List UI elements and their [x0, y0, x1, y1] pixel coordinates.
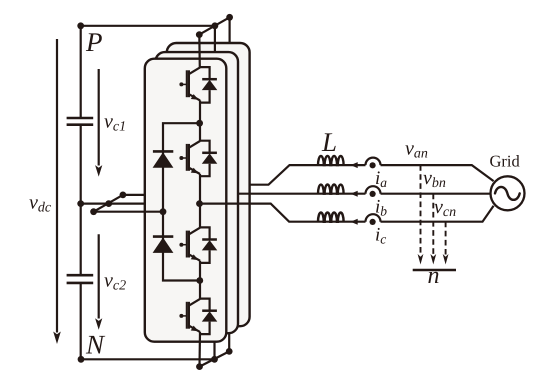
- wire: DC rail middle segment (C1 to C2): [80, 125, 82, 276]
- node: neutral jog c: [120, 192, 127, 199]
- wire: phase b output (from middle leg): [238, 193, 366, 195]
- node: neutral jog b: [105, 200, 112, 207]
- wire: neutral branch toward back leg clamp: [123, 194, 145, 196]
- leg module outline (front): [145, 59, 227, 342]
- wire: DC rail top segment (P to C1): [80, 26, 82, 118]
- wire: bottom diagonal to stacked legs: [200, 351, 230, 366]
- inductor L (phase a): [318, 156, 344, 165]
- node P: [77, 22, 84, 29]
- wire: neutral link from DC midpoint: [81, 203, 145, 205]
- node: bottom diagonal back: [226, 348, 233, 355]
- transistor Q3: [179, 228, 200, 261]
- wire: top diagonal to stacked legs: [199, 17, 229, 34]
- wire: neutral diagonal jog: [94, 195, 123, 212]
- wire: phase b to grid: [381, 193, 490, 195]
- svg-text:n: n: [428, 263, 440, 289]
- node: DC midpoint: [77, 200, 84, 207]
- wire: phase c to grid: [381, 206, 494, 222]
- wire: DC rail bottom segment (C2 to N): [80, 283, 82, 359]
- diode D4 (antiparallel): [200, 299, 217, 335]
- label v_c1 with arrow: [98, 69, 100, 166]
- node: top diagonal mid: [212, 22, 219, 29]
- node N: [78, 356, 85, 363]
- wire: riser into middle leg: [213, 342, 215, 360]
- leg module outline (middle): [155, 52, 238, 333]
- sine symbol inside AC source: [495, 187, 520, 200]
- wire: phase a to grid: [381, 165, 494, 181]
- svg-text:ib: ib: [375, 197, 387, 219]
- wire: positive DC bus: [81, 25, 215, 27]
- svg-text:vdc: vdc: [29, 192, 52, 216]
- wire: phase a output (from back leg): [250, 165, 366, 185]
- node: clamp lower junction: [196, 277, 203, 284]
- svg-text:vcn: vcn: [434, 196, 456, 220]
- diode D3 (antiparallel): [200, 227, 217, 263]
- node: clamp upper junction: [196, 120, 203, 127]
- inductor phase c: [318, 213, 344, 222]
- capacitor C2: [67, 275, 94, 283]
- wire: riser into back leg: [228, 333, 230, 351]
- current sensor phase a: [366, 158, 381, 165]
- diode D6 (clamp): [153, 237, 174, 253]
- svg-text:ia: ia: [375, 168, 387, 190]
- node n reference bar: [413, 269, 456, 271]
- inductor phase b: [318, 185, 344, 194]
- dashed arrow v_an to n: [420, 165, 422, 254]
- current sensor phase b: [366, 186, 381, 193]
- wire: phase c output (from front leg): [200, 204, 366, 222]
- diode D1 (antiparallel): [200, 67, 217, 103]
- current sensor phase c: [366, 214, 381, 221]
- transistor Q2: [179, 141, 200, 174]
- wire: drop into back leg: [229, 17, 231, 43]
- wire: vdc measurement arrow: [56, 39, 58, 333]
- wire: negative DC bus: [81, 358, 215, 360]
- label v_c2 with arrow: [98, 234, 100, 318]
- dashed arrow v_bn to n: [432, 194, 434, 255]
- arrowhead of vdc arrow: [53, 332, 61, 345]
- capacitor C1: [67, 118, 94, 125]
- arrow: current direction i_b: [351, 191, 358, 197]
- node: top diagonal back: [226, 14, 233, 21]
- node: neutral jog a: [90, 208, 97, 215]
- diode D2 (antiparallel): [200, 141, 217, 177]
- transistor Q4: [179, 299, 200, 332]
- wire: front leg switch chain: [198, 35, 201, 367]
- node: clamp neutral point: [160, 208, 167, 215]
- wire: neutral branch to front leg clamp: [94, 211, 163, 213]
- svg-text:N: N: [85, 330, 106, 360]
- dashed arrow v_cn to n: [445, 222, 447, 255]
- svg-text:Grid: Grid: [490, 152, 521, 171]
- svg-text:vc2: vc2: [104, 270, 126, 294]
- wire: clamp branch: [163, 123, 200, 280]
- svg-text:van: van: [405, 138, 428, 162]
- arrow: current direction i_c: [351, 219, 358, 225]
- arrow: current direction i_a: [351, 162, 358, 168]
- leg module outline (back): [167, 43, 250, 326]
- transistor Q1: [179, 67, 200, 100]
- svg-text:ic: ic: [375, 225, 386, 247]
- diode D5 (clamp): [153, 151, 174, 167]
- svg-text:vbn: vbn: [423, 167, 446, 191]
- svg-text:vc1: vc1: [104, 111, 126, 135]
- node: bottom diagonal front: [196, 363, 203, 370]
- svg-text:P: P: [85, 27, 103, 57]
- node: bottom diagonal mid: [211, 356, 218, 363]
- node: top diagonal front: [196, 31, 203, 38]
- svg-text:L: L: [321, 127, 337, 157]
- node: phase output: [196, 200, 203, 207]
- wire: drop into middle leg: [214, 26, 216, 52]
- AC source: grid: [491, 176, 525, 210]
